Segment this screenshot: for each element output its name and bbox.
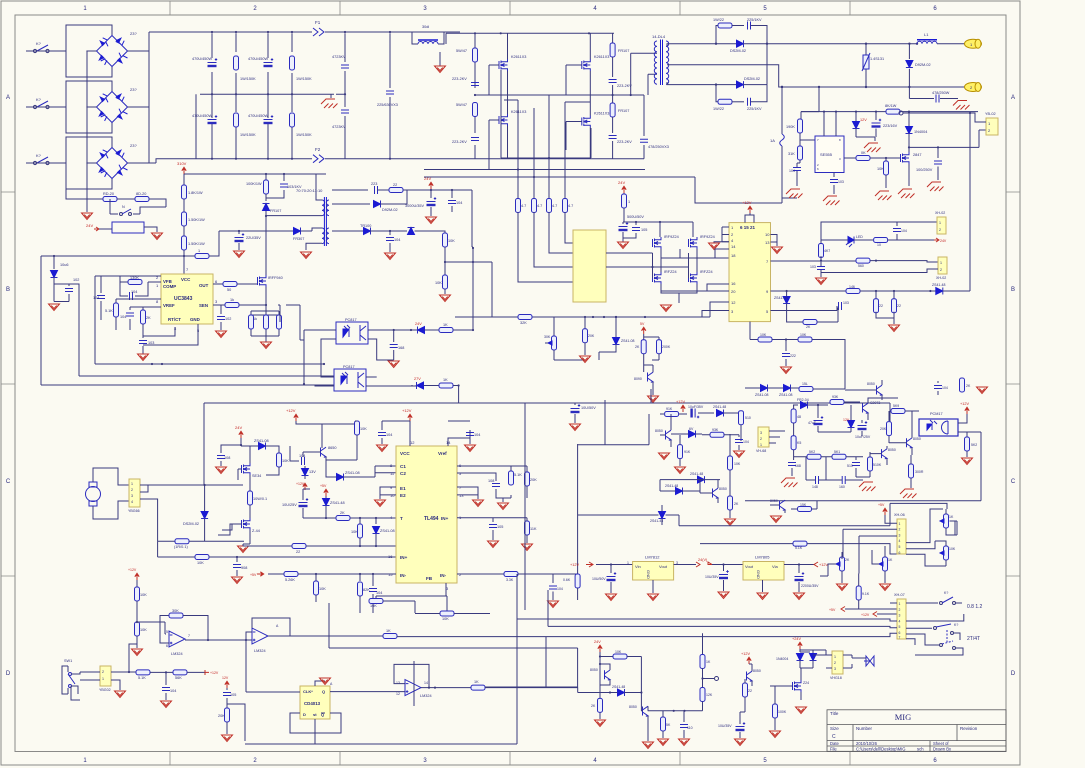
out wire 7805 [784, 564, 814, 566]
connector XH-06 [897, 519, 906, 554]
svg-text:223-2KV: 223-2KV [617, 84, 632, 88]
cap 10uF/25V [861, 420, 863, 436]
res 20K analog [887, 422, 892, 436]
res 5K bd [661, 717, 666, 731]
ground 20K [580, 356, 591, 363]
top loop wire [890, 503, 947, 525]
svg-text:1K: 1K [888, 558, 893, 562]
svg-text:1W/22: 1W/22 [713, 107, 724, 111]
svg-text:0.6K: 0.6K [563, 578, 571, 582]
svg-text:14-DL4: 14-DL4 [652, 34, 666, 39]
transistor 8050 a [321, 447, 327, 457]
svg-text:5K1: 5K1 [834, 450, 840, 454]
svg-text:ZS41-08: ZS41-08 [380, 529, 395, 533]
resistor 82K in- [359, 574, 361, 581]
capacitor 103 555b [833, 172, 835, 177]
res 5K9 [891, 409, 905, 414]
svg-text:D: D [6, 671, 11, 677]
ground sense [261, 342, 272, 349]
svg-text:2K: 2K [635, 345, 640, 349]
svg-text:16: 16 [731, 281, 736, 286]
resistor 5.1K sw [136, 670, 150, 675]
power arrow 24V hbridge [239, 431, 243, 438]
wire opto2 left pins [315, 385, 334, 386]
mosfet K2611X3 d [582, 116, 591, 128]
svg-text:12: 12 [731, 300, 736, 305]
res 510K [868, 457, 873, 471]
svg-text:DS2M-02: DS2M-02 [183, 522, 199, 526]
resistor 11K r [525, 521, 530, 535]
res 10K low [728, 456, 733, 470]
svg-text:K2611X3: K2611X3 [594, 55, 609, 59]
wire OUT to gate [213, 283, 223, 285]
svg-text:1W/150K: 1W/150K [240, 77, 256, 81]
svg-text:1W/22: 1W/22 [713, 18, 724, 22]
wire primary top to rail [316, 174, 322, 200]
svg-text:VHG18: VHG18 [830, 676, 842, 680]
svg-text:12K: 12K [706, 693, 713, 697]
svg-text:104: 104 [376, 591, 382, 595]
svg-text:10K: 10K [760, 333, 767, 337]
svg-text:YBG66: YBG66 [128, 509, 140, 513]
svg-text:2S41-48: 2S41-48 [665, 484, 678, 488]
vertical return wire [969, 247, 971, 291]
resistor 20K mid [584, 317, 586, 329]
svg-text:4: 4 [899, 619, 901, 623]
ground fbw [385, 253, 396, 260]
svg-text:104: 104 [456, 201, 462, 205]
pin wires xh06 [843, 529, 897, 573]
svg-text:510: 510 [745, 416, 751, 420]
pin1 IN+ r [457, 518, 527, 522]
24V arrow [598, 645, 602, 652]
svg-text:5: 5 [166, 630, 168, 634]
svg-text:RD-20: RD-20 [103, 192, 114, 196]
diode FR107 b [612, 95, 614, 103]
+12V top rail [294, 414, 298, 421]
wire SEN pin [213, 304, 225, 306]
svg-text:ZS41-08: ZS41-08 [779, 393, 792, 397]
svg-text:2: 2 [102, 670, 104, 674]
svg-text:10K: 10K [319, 587, 326, 591]
resistor 93K [830, 400, 844, 405]
earth 555 left [786, 189, 803, 198]
svg-text:+12V: +12V [960, 402, 969, 406]
ground relay [152, 233, 163, 240]
earth cap [927, 182, 944, 191]
svg-text:47uF: 47uF [808, 421, 816, 425]
capacitor 478/250W out [909, 98, 958, 100]
svg-text:1W/150K: 1W/150K [296, 77, 312, 81]
svg-text:ZS41-48: ZS41-48 [330, 501, 345, 505]
pin 9 wire right [771, 290, 847, 292]
pot 1K left2 [883, 557, 888, 571]
svg-text:FR2-04: FR2-04 [797, 398, 809, 402]
node out junction [916, 43, 918, 45]
resistor 4.7 c [547, 199, 552, 213]
capacitor 223/2KV d [609, 136, 617, 139]
RCD clamp: diode FR107 [265, 194, 267, 201]
resistor 200K mid [644, 337, 659, 340]
resistor 5W/47 b [473, 103, 478, 117]
+12V out arrow [814, 562, 818, 567]
resistor 0K rail [383, 634, 397, 639]
ground under 22U cap [234, 251, 245, 258]
cap 104 in- [372, 574, 374, 586]
resistor 1.8K/1W [182, 185, 187, 199]
RCD clamp: resistor 100K/1W [265, 174, 267, 180]
svg-text:1.50K/1W: 1.50K/1W [188, 218, 205, 222]
res K5 [791, 436, 796, 450]
diode TR100 [364, 228, 371, 235]
switch K2 [30, 101, 53, 109]
svg-text:E2: E2 [400, 493, 406, 498]
svg-text:20: 20 [731, 289, 736, 294]
resistor 10K 555 [885, 158, 887, 162]
svg-text:K?: K? [944, 591, 948, 595]
svg-text:104: 104 [789, 169, 795, 173]
cap 10U/50V reg [610, 565, 612, 574]
opto PCM17 [919, 419, 958, 436]
resistor 20K r [526, 466, 528, 472]
connector XH-07 [897, 599, 906, 639]
capacitor 168 [393, 330, 395, 342]
transistor 8050 rail [780, 500, 786, 510]
rail to XH-06 pin6 [700, 543, 793, 545]
res 22 bd [743, 683, 748, 697]
capacitor 223/2KV b [471, 138, 479, 141]
diode 24V opto [418, 327, 425, 334]
connector VH-68 [758, 427, 769, 447]
svg-text:32K: 32K [520, 321, 527, 325]
wire opamp2 out long rail [268, 635, 383, 637]
ground 168 [388, 361, 399, 368]
svg-text:91K: 91K [684, 450, 691, 454]
wire [332, 190, 472, 204]
svg-text:4723KV: 4723KV [332, 55, 346, 59]
svg-text:6: 6 [899, 551, 901, 555]
zener 6V [689, 431, 696, 438]
svg-text:30K: 30K [544, 335, 551, 339]
svg-text:14: 14 [424, 681, 428, 685]
bridge rectifier B3 [66, 137, 128, 189]
svg-text:IRF9Z24: IRF9Z24 [700, 235, 715, 239]
svg-text:C:\Users\dell\Desktop\MIG: C:\Users\dell\Desktop\MIG [856, 747, 906, 752]
svg-text:470U/450W: 470U/450W [248, 114, 268, 118]
svg-text:22: 22 [748, 689, 752, 693]
svg-text:T: T [400, 516, 403, 521]
ground r [502, 498, 504, 502]
transistor 8050 bd3 [747, 671, 753, 681]
svg-text:2: 2 [834, 661, 836, 665]
svg-text:15L: 15L [802, 382, 808, 386]
svg-text:10U/35V: 10U/35V [718, 724, 732, 728]
svg-text:10uF/25V: 10uF/25V [855, 435, 871, 439]
svg-text:8050: 8050 [590, 668, 598, 672]
capacitor 470U/450V c [264, 58, 274, 67]
wire rail to left edge [41, 255, 195, 257]
mosfet Z-44 low [242, 518, 251, 530]
svg-text:470U/450W: 470U/450W [192, 57, 212, 61]
svg-text:222: 222 [790, 354, 796, 358]
svg-text:13V: 13V [309, 470, 316, 474]
wire opto1 right pins [368, 330, 418, 360]
feedback 30K [160, 616, 169, 644]
svg-text:GND: GND [646, 570, 651, 579]
transistor 8090 mid [648, 372, 654, 382]
capacitor 225/630VX3 [389, 33, 391, 158]
+24V bd [798, 642, 802, 649]
svg-text:20K: 20K [530, 478, 537, 482]
svg-text:+24V: +24V [792, 637, 801, 641]
svg-text:104: 104 [901, 229, 907, 233]
res 15K rail [798, 507, 812, 512]
long vertical [578, 389, 771, 575]
svg-text:TL494: TL494 [424, 516, 439, 522]
+12V opto [965, 407, 969, 414]
ground led [816, 278, 827, 285]
pot 10K [944, 546, 949, 560]
transistor 8050 mid [907, 438, 913, 448]
svg-text:2010/10/26: 2010/10/26 [856, 741, 878, 746]
svg-text:20K: 20K [218, 714, 225, 718]
mosfet Z24 [793, 680, 802, 692]
svg-text:C2073: C2073 [870, 401, 880, 405]
capacitor 478/250VX3 [643, 95, 645, 136]
supply wire to fet pairs [623, 222, 693, 237]
svg-text:K?: K? [36, 41, 42, 46]
capacitor 4723KV a [344, 33, 346, 94]
svg-text:10: 10 [390, 493, 395, 498]
resistor 5W/47 a [473, 48, 478, 62]
svg-text:FR107: FR107 [618, 49, 629, 53]
svg-text:FR107: FR107 [270, 209, 281, 213]
zener 12V analog [818, 405, 851, 432]
svg-text:1: 1 [939, 221, 941, 225]
svg-text:24V: 24V [415, 322, 422, 326]
svg-text:4: 4 [131, 500, 133, 504]
svg-text:10K: 10K [949, 547, 956, 551]
+12V arrow into 7812 [586, 562, 593, 567]
capacitor 223/2KV a [471, 83, 479, 86]
svg-text:IN+: IN+ [441, 516, 449, 521]
resistor 12K col [700, 688, 705, 702]
svg-text:10u6: 10u6 [60, 263, 68, 267]
svg-text:3.3K: 3.3K [506, 578, 514, 582]
svg-text:5K2: 5K2 [809, 450, 815, 454]
resistor 560 [856, 258, 870, 263]
svg-text:190K: 190K [786, 125, 795, 129]
svg-text:1: 1 [899, 602, 901, 606]
svg-text:104: 104 [557, 587, 563, 591]
ground 3000U [426, 217, 437, 224]
resistor 2K rt [142, 307, 144, 310]
cap 510 [852, 463, 860, 466]
resistor 10K div a [443, 233, 448, 247]
capacitor 104 555 [793, 168, 801, 171]
svg-text:VH-68: VH-68 [756, 449, 766, 453]
resistor 10K col a [136, 580, 138, 587]
connector XH-02 a [937, 217, 946, 234]
svg-text:5.1K: 5.1K [105, 309, 113, 313]
svg-text:PC817: PC817 [345, 318, 357, 322]
+12V sw arrow [205, 670, 209, 675]
svg-text:22: 22 [897, 304, 901, 308]
resistor 10 led [874, 238, 888, 243]
svg-text:103: 103 [810, 265, 816, 269]
svg-text:8050: 8050 [867, 382, 875, 386]
feedback loop opamp3 [394, 661, 429, 706]
svg-text:18: 18 [731, 253, 736, 258]
svg-text:7: 7 [899, 636, 901, 640]
svg-text:SW1: SW1 [64, 659, 72, 663]
left rail wires [666, 501, 891, 526]
svg-text:10K: 10K [734, 462, 741, 466]
cap 104 mid [738, 435, 740, 437]
svg-text:PC817: PC817 [343, 365, 355, 369]
svg-text:10K: 10K [370, 604, 377, 608]
mosfet IRFZ24 a [653, 272, 662, 284]
wire switch1 to bridge1 [26, 51, 66, 163]
svg-text:300R: 300R [915, 470, 924, 474]
mosfet SE34 high [242, 463, 251, 475]
pin 5 wire right [771, 310, 838, 312]
ground sw [111, 680, 120, 690]
svg-text:Vout: Vout [659, 564, 668, 569]
power arrow 24V aux [429, 182, 433, 189]
inductor L1 [917, 40, 937, 44]
svg-text:10K: 10K [140, 628, 147, 632]
res 2K low [728, 496, 733, 510]
capacitor 222 [785, 340, 787, 352]
ground aux winding [301, 252, 312, 259]
mosfet K2611X3 a [499, 59, 508, 71]
gnd above cd4013 [315, 681, 325, 686]
cap 168 vh [788, 463, 796, 466]
svg-text:4.7: 4.7 [552, 204, 557, 208]
res 100K bd [773, 704, 778, 718]
svg-text:30di: 30di [422, 25, 429, 29]
svg-text:104: 104 [120, 315, 126, 319]
snubber R 1W/22 top [716, 26, 718, 44]
svg-text:2200U/35V: 2200U/35V [801, 584, 819, 588]
res 48 [791, 409, 796, 423]
diodes 2S41-48 pair [698, 476, 705, 483]
capacitor 103 led2 [817, 267, 825, 270]
svg-text:223-2KV: 223-2KV [452, 77, 467, 81]
svg-text:50: 50 [227, 288, 231, 292]
svg-text:103: 103 [838, 180, 844, 184]
svg-text:15K: 15K [800, 503, 807, 507]
svg-text:2T/4T: 2T/4T [967, 636, 980, 642]
svg-text:223-2KV: 223-2KV [452, 140, 467, 144]
wire bridge outputs to DC bus [128, 51, 157, 163]
capacitor 470U/450V d [264, 115, 274, 124]
cap 2200U/35V [798, 565, 800, 574]
svg-text:168: 168 [398, 346, 404, 350]
svg-text:Date: Date [830, 741, 840, 746]
svg-text:+12V: +12V [402, 408, 412, 413]
svg-text:K2611X3: K2611X3 [594, 112, 609, 116]
resistor 4K7 [820, 240, 822, 245]
svg-text:10K: 10K [351, 530, 358, 534]
svg-text:3: 3 [899, 614, 901, 618]
svg-text:2S41-48: 2S41-48 [713, 405, 726, 409]
svg-text:500U/50V: 500U/50V [627, 215, 644, 219]
long rail A [41, 330, 334, 385]
svg-text:Vref: Vref [438, 451, 447, 456]
feedback loop cd4013 [290, 713, 341, 744]
mosfet K2611X3 b [499, 114, 508, 126]
right pin network 6/5 [457, 466, 511, 481]
misc top caps [937, 381, 939, 395]
svg-text:0.8 1.2: 0.8 1.2 [967, 604, 983, 610]
svg-text:8050: 8050 [888, 448, 896, 452]
drain row [909, 130, 986, 147]
zener 13V [304, 466, 306, 468]
svg-text:UC3843: UC3843 [174, 296, 193, 302]
earth ground mid filter [331, 94, 345, 98]
wire bottom bus [156, 94, 312, 163]
svg-text:24V: 24V [594, 640, 601, 644]
transistor 8050 bd1 [605, 670, 611, 680]
svg-text:SEN: SEN [199, 303, 208, 308]
svg-text:SE34: SE34 [252, 474, 261, 478]
capacitor 104 tla [302, 457, 305, 465]
svg-text:93K: 93K [832, 395, 839, 399]
svg-text:310V: 310V [177, 161, 187, 166]
resistor 10K col b [135, 622, 140, 636]
sense resistors to ground [251, 305, 279, 342]
cap 110 bd [680, 725, 688, 728]
svg-text:478/250VX3: 478/250VX3 [648, 145, 669, 149]
svg-text:8050: 8050 [629, 705, 637, 709]
wire opamp1 out [208, 639, 246, 641]
cap 10U/35V reg [723, 565, 725, 572]
svg-text:10: 10 [877, 243, 881, 247]
svg-text:VCC: VCC [181, 277, 191, 282]
svg-text:200K: 200K [662, 345, 671, 349]
transistor 8050 bd2 [643, 706, 649, 716]
diode ZS41-08 b [337, 474, 344, 481]
svg-text:Size: Size [830, 726, 839, 731]
svg-text:K?: K? [36, 153, 42, 158]
resistor 2K pin5 [787, 311, 803, 323]
svg-text:10K: 10K [282, 459, 289, 463]
resistor 5.1K [115, 299, 117, 303]
svg-text:1K: 1K [386, 629, 391, 633]
grounds bd [595, 720, 606, 727]
relay coil box [112, 222, 144, 233]
mid control bus [455, 316, 710, 318]
gnd pin 7812 [652, 580, 654, 593]
ground rtct [142, 352, 144, 354]
ground soft start [82, 213, 93, 220]
svg-text:1.8K/1W: 1.8K/1W [188, 191, 203, 195]
svg-text:5.1K: 5.1K [795, 546, 803, 550]
resistor 1K opto1 [425, 329, 440, 331]
capacitor 22U/35V [238, 231, 240, 234]
svg-text:1.4S131: 1.4S131 [870, 57, 884, 61]
svg-text:108: 108 [224, 456, 230, 460]
connector YH-02 [986, 118, 998, 135]
misc upper mid: res 91K + cap 10uF/35V + diode [660, 413, 664, 415]
resistor 4.7 a [516, 199, 521, 213]
svg-text:1: 1 [102, 677, 104, 681]
svg-text:3: 3 [131, 494, 133, 498]
svg-text:IN-: IN- [440, 573, 447, 578]
left edge: zener 10u6 [53, 256, 55, 269]
